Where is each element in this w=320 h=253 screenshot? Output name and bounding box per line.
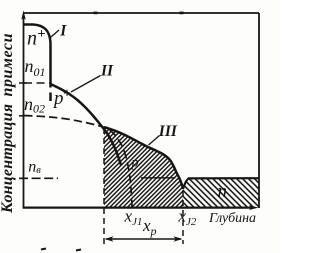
curve II (base p+) (51, 84, 122, 165)
dashed net-impurity curve from n02 (24, 116, 132, 209)
dimension arrowhead left (105, 236, 114, 242)
svg-text:III: III (158, 123, 178, 140)
y axis arrowhead (21, 10, 25, 20)
svg-text:+: + (38, 27, 46, 42)
leader line label II (71, 76, 101, 93)
svg-text:Концентрация: Концентрация (0, 104, 16, 214)
nB level line inside hatch (141, 177, 176, 179)
tick n01 level (19, 82, 27, 84)
hatched n region (collector) (183, 178, 259, 208)
leader line label I (50, 30, 59, 38)
tick mark on top border (left) (94, 12, 98, 15)
svg-text:II: II (100, 62, 114, 79)
svg-text:n: n (27, 28, 37, 50)
svg-text:примеси: примеси (0, 33, 16, 96)
dimension arrowhead right (174, 236, 183, 242)
collector n-region top boundary (183, 178, 259, 189)
x axis (23, 207, 252, 209)
tick mark on top border (right) (180, 12, 184, 15)
dashed vertical xJ1 (103, 128, 105, 244)
svg-text:I: I (59, 22, 67, 39)
dimension line xp (106, 238, 181, 240)
right border (258, 13, 260, 208)
scan artifact marks bottom (41, 249, 46, 250)
dashed level line n01 (24, 82, 50, 84)
svg-text:+: + (63, 87, 71, 102)
x axis arrowhead (249, 205, 259, 210)
dashed vertical xJ2 (182, 190, 184, 244)
hatched p region under curve III (104, 127, 183, 208)
tick nB level (19, 177, 27, 179)
tick n02 level (19, 115, 27, 117)
svg-text:Глубина: Глубина (208, 211, 256, 226)
curve III (collector junction profile) (104, 127, 183, 189)
svg-text:p: p (52, 88, 64, 109)
leader line label III (149, 136, 160, 146)
curve I (emitter n+) (24, 25, 51, 102)
nB level line (19, 177, 58, 179)
svg-text:п: п (218, 181, 228, 202)
top border (24, 12, 260, 14)
y axis (23, 16, 25, 208)
svg-text:p: p (131, 156, 139, 171)
